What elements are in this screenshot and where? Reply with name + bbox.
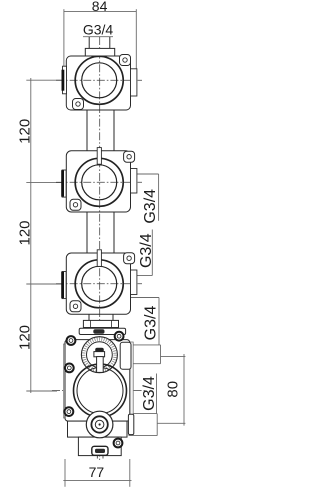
svg-text:84: 84: [92, 0, 108, 14]
svg-text:G3/4: G3/4: [138, 233, 155, 268]
svg-text:120: 120: [17, 325, 34, 350]
svg-text:120: 120: [17, 119, 34, 144]
svg-text:G3/4: G3/4: [142, 189, 159, 224]
svg-text:G3/4: G3/4: [141, 376, 158, 411]
svg-text:80: 80: [165, 381, 182, 398]
svg-text:120: 120: [17, 220, 34, 245]
svg-text:77: 77: [89, 464, 105, 480]
svg-text:G3/4: G3/4: [83, 22, 114, 38]
svg-text:G3/4: G3/4: [143, 306, 160, 341]
